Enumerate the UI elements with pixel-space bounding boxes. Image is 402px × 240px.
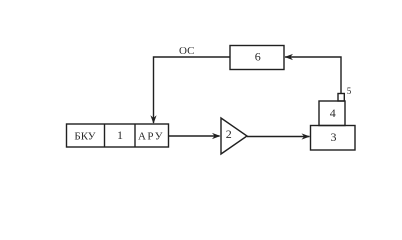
arrowhead into АРУ [150, 115, 156, 124]
wire amplifier 2 → block 3 [247, 136, 310, 138]
sensor 5 (small square on block 4) [338, 94, 344, 102]
arrowhead into block 3 [302, 133, 311, 139]
block 4 [319, 101, 345, 126]
svg-text:БКУ: БКУ [74, 131, 95, 143]
svg-text:АРУ: АРУ [138, 131, 164, 143]
wire sensor 5 → block 6 [285, 57, 341, 94]
divider between 1 and АРУ [134, 124, 136, 147]
block 3 [311, 126, 356, 151]
arrowhead into amplifier 2 [212, 133, 221, 139]
svg-text:4: 4 [330, 106, 336, 120]
block БКУ-1-АРУ outline [67, 124, 169, 147]
svg-text:2: 2 [226, 127, 232, 141]
svg-text:6: 6 [255, 50, 261, 64]
svg-text:ОС: ОС [179, 45, 194, 57]
amplifier 2 (triangle) [221, 118, 247, 154]
wire block 6 → АРУ (ОС feedback) [154, 57, 231, 123]
block 6 [230, 46, 284, 70]
svg-text:5: 5 [347, 86, 352, 96]
divider between БКУ and 1 [104, 124, 106, 147]
arrowhead into block 6 [285, 54, 294, 60]
svg-text:1: 1 [117, 128, 123, 142]
wire АРУ → amplifier 2 [169, 135, 220, 137]
svg-text:3: 3 [331, 130, 337, 144]
